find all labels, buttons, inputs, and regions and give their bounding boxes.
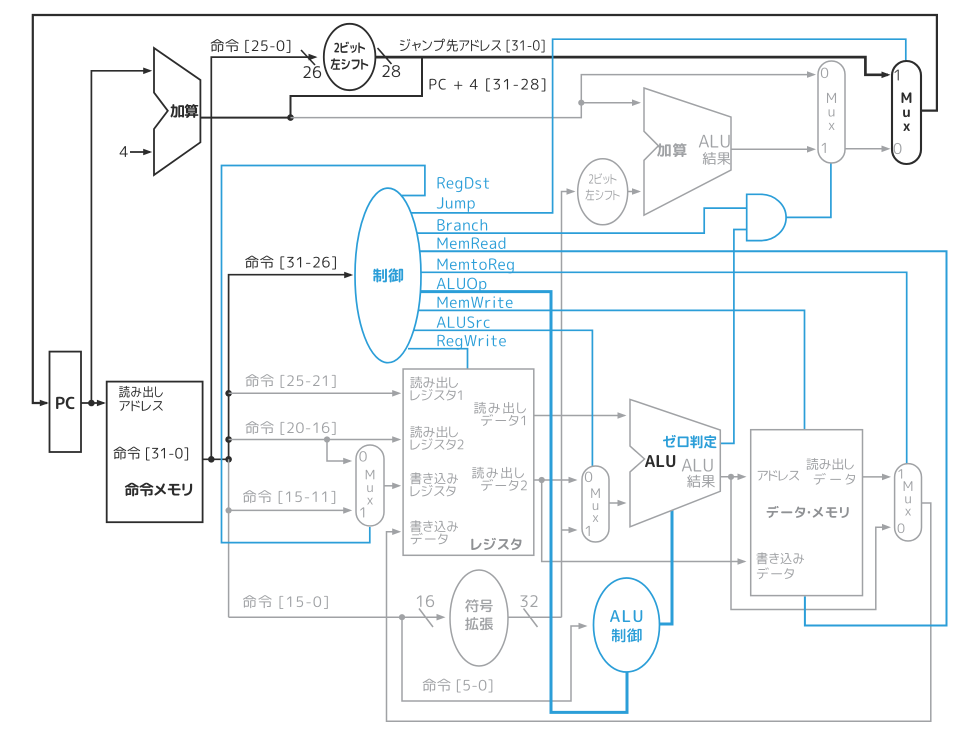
label: 26 bits <box>303 66 310 78</box>
wire: instruction vertical gray segment below bus junction <box>228 459 230 617</box>
wire: PC output to instruction memory read-address <box>81 402 104 404</box>
label: instruction memory <box>125 483 139 497</box>
label: registers read register 2 <box>410 426 422 438</box>
shifter: branch shift-left-2 <box>578 159 628 225</box>
label: control unit <box>373 268 387 282</box>
mux: jump Mux <box>892 61 921 164</box>
wire: ALU control output to ALU <box>658 510 672 624</box>
label: data memory <box>767 506 779 518</box>
node: [15-11] junction <box>226 507 232 513</box>
adder: PC+4 adder <box>154 48 200 175</box>
label: registers read register 1 <box>410 376 422 388</box>
wire: read data 1 to ALU input 1 <box>534 415 625 417</box>
wire: branch Mux output to jump Mux input 0 <box>845 148 888 150</box>
node: junction on instruction bus for [25-21] <box>225 390 232 397</box>
wire: MemtoReg control signal to MemtoReg Mux select <box>421 272 907 464</box>
wire: branch shift-left-2 output into branch adder lower input <box>628 191 639 193</box>
label: registers write data <box>410 520 421 532</box>
adder: branch target adder <box>644 88 731 215</box>
wire: RegDst control signal loop to RegDst Mux <box>222 166 425 543</box>
label: instruction [15-11] <box>243 490 256 503</box>
label: instruction memory read address <box>119 386 130 398</box>
label: sign extend <box>465 599 478 612</box>
wire: ALU result bypass down and to MemtoReg Mux input 0 <box>731 477 889 610</box>
label: main ALU <box>645 455 655 467</box>
label: 28 bits <box>382 65 389 77</box>
wire: PC+4 [31-28] up to jump address bus <box>291 57 423 118</box>
wire: jump address [31-0] bus from shift-left-2 to jump Mux input 1 <box>375 57 888 75</box>
alu: main ALU <box>630 399 720 526</box>
bus-width slash 16 before sign extend <box>419 609 433 628</box>
wire: adder PC+4 output (black segment to junction) <box>200 117 290 119</box>
wire: MemtoReg Mux output loop back to register write data <box>387 503 931 721</box>
node: instruction bus junction B <box>225 456 232 463</box>
wire: Branch control signal to AND gate <box>417 208 747 233</box>
wire: instruction [15-0] to sign extend <box>229 616 444 618</box>
shifter: shift-left-2 for jump address <box>324 24 376 90</box>
label: registers read data 1 <box>474 402 486 414</box>
label: jump target address [31-0] <box>400 39 410 51</box>
node: [20-16] junction to RegDst Mux <box>324 436 330 442</box>
label: shift left 2 (jump) line 1 <box>334 43 339 53</box>
label: adder (kasan) <box>171 104 184 117</box>
label: registers (register file) <box>471 539 481 550</box>
wire: instruction [25-21] to read register 1 <box>229 392 399 394</box>
wire: PC output up to adder input <box>91 71 150 403</box>
label: branch shift left 2 line1 <box>589 174 593 183</box>
label: constant 4 <box>120 146 128 157</box>
memory: data memory <box>751 430 863 596</box>
label: registers write register <box>410 472 421 484</box>
mux: ALUSrc Mux <box>582 466 609 542</box>
label: instruction [25-0] <box>211 39 224 52</box>
bus-width slash 26 on instruction [25-0] <box>301 50 315 65</box>
node: junction on instruction bus for [20-16] <box>225 436 232 443</box>
label: RegWrite signal <box>438 335 445 346</box>
node: PC+4 branch junction <box>578 100 584 106</box>
label: PC <box>56 397 65 409</box>
register: PC <box>50 352 82 452</box>
wire: ALU result to data memory address <box>720 476 744 478</box>
gate: branch AND gate <box>747 194 786 240</box>
bus-width slash 28 on jump address <box>378 48 392 64</box>
label: data memory write data <box>756 552 767 564</box>
wire: instruction [20-16] to read register 2 <box>229 439 399 441</box>
label: Branch signal <box>438 219 445 231</box>
wire: RegWrite control signal to register file <box>408 349 468 370</box>
label: data memory read data <box>806 458 818 470</box>
label: ALU control <box>610 610 620 622</box>
label: instruction [25-21] <box>246 374 259 387</box>
node: [15-0] junction for [5-0] <box>399 614 405 620</box>
label: Jump signal <box>437 197 443 208</box>
wire: Jump control signal to jump Mux select <box>411 39 906 213</box>
wire: instruction [25-0] from instruction memory up to shift-left-2 <box>211 57 315 459</box>
wire: ALU zero flag to AND gate <box>718 230 747 444</box>
wire: instruction [31-26] to control unit <box>229 275 351 460</box>
label: instruction [5-0] <box>423 679 436 692</box>
label: 16 bits <box>417 595 422 607</box>
wire: instruction bus out of instruction memory <box>203 458 229 460</box>
wire: ALUSrc control signal to ALUSrc Mux select <box>414 330 592 467</box>
mux: MemtoReg Mux <box>895 464 922 541</box>
label: registers read data 2 <box>472 467 484 479</box>
wire: ALUOp control signal to ALU control <box>420 292 627 713</box>
label: ALUOp signal <box>437 278 446 289</box>
node: read data 2 junction <box>539 477 545 483</box>
node: instruction bus junction A <box>208 456 215 463</box>
wire: read data 2 to ALUSrc Mux input 0 <box>534 479 576 481</box>
oval: ALU control <box>594 578 660 672</box>
mux: RegDst Mux (write register select) <box>356 445 384 526</box>
wire: branch adder result to branch Mux input 1 <box>731 148 814 150</box>
label: PC + 4 [31-28] <box>430 79 437 90</box>
wire: [20-16] down into RegDst Mux input 0 <box>327 440 350 462</box>
wire: read data 2 down to data memory write data <box>542 480 745 562</box>
label: instruction [31-0] <box>114 447 127 460</box>
node: PC output junction <box>88 400 95 407</box>
mux: branch Mux (PCSrc) <box>818 61 845 163</box>
wire: sign-extend output riser up to branch shift-left-2 <box>562 192 574 618</box>
node: PC+4 junction <box>287 114 294 121</box>
label: ALUSrc signal <box>437 316 446 327</box>
label: instruction [15-0] <box>243 595 256 608</box>
label: instruction [20-16] <box>246 421 259 434</box>
wire: PC+4 gray bus right toward branch adder <box>291 103 582 118</box>
node: ALU result junction <box>728 474 734 480</box>
wire: PC feedback loop from jump Mux output around top-left into PC <box>33 15 937 403</box>
oval: control unit <box>355 188 421 363</box>
label: MemRead signal <box>438 237 448 248</box>
label: MemtoReg signal <box>438 258 448 269</box>
wire: sign-extend output to riser <box>508 616 562 618</box>
memory: instruction memory <box>107 382 203 523</box>
label: data memory address <box>758 471 768 481</box>
oval: sign extend <box>450 570 508 666</box>
wire: MemRead control signal to data memory read port <box>420 251 947 625</box>
wire: AND gate output to branch Mux select <box>786 162 831 217</box>
wire: ALUSrc Mux output to ALU input 2 <box>609 502 625 504</box>
wire: instruction [15-11] to RegDst Mux input 1 <box>229 509 350 511</box>
label: zero detect <box>663 435 676 448</box>
wire: data memory read data to MemtoReg Mux input 1 <box>863 476 890 478</box>
label: 32 bits <box>520 595 527 607</box>
wire: PC+4 into branch adder top input <box>581 102 639 104</box>
wire: RegDst Mux output to write register <box>384 485 399 487</box>
label: branch adder (kasan) <box>657 143 670 156</box>
label: branch adder ALU result <box>699 135 709 148</box>
wire: instruction [5-0] to ALU control <box>402 617 586 701</box>
wire: PC+4 up to branch Mux input 0 <box>581 75 814 103</box>
bus-width slash 32 after sign extend <box>524 609 538 628</box>
wire: sign-extend riser stub into ALUSrc Mux input 1 <box>562 529 576 531</box>
wire: constant 4 into adder <box>130 151 150 153</box>
label: instruction [31-26] <box>245 256 258 269</box>
memory: registers (register file) <box>403 369 534 555</box>
wire: MemWrite control signal to data memory write port <box>418 310 805 430</box>
label: ALU result <box>682 459 692 472</box>
label: MemWrite signal <box>438 297 448 308</box>
label: RegDst signal <box>438 177 445 188</box>
